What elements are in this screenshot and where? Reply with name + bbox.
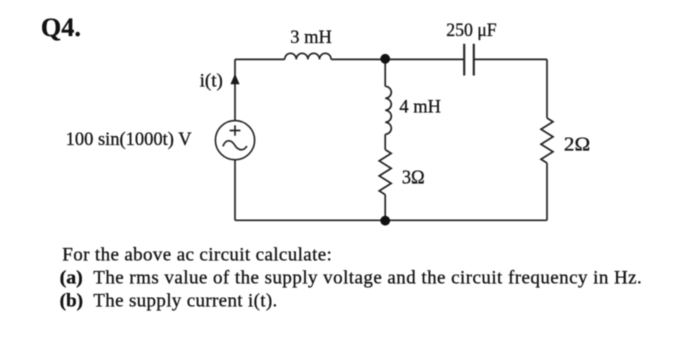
svg-text:i(t): i(t) bbox=[200, 70, 223, 91]
svg-text:3Ω: 3Ω bbox=[402, 167, 425, 188]
svg-text:4 mH: 4 mH bbox=[399, 97, 441, 118]
svg-text:The rms value of the supply vo: The rms value of the supply voltage and … bbox=[93, 268, 642, 289]
svg-text:(b): (b) bbox=[60, 290, 84, 311]
svg-text:250 μF: 250 μF bbox=[446, 20, 497, 41]
svg-text:100 sin(1000t) V: 100 sin(1000t) V bbox=[66, 129, 192, 150]
svg-text:For the above ac circuit calcu: For the above ac circuit calculate: bbox=[62, 245, 332, 266]
svg-text:2Ω: 2Ω bbox=[564, 135, 590, 156]
svg-text:3 mH: 3 mH bbox=[290, 27, 332, 48]
svg-text:Q4.: Q4. bbox=[41, 12, 81, 42]
svg-text:(a): (a) bbox=[60, 268, 83, 289]
svg-text:The supply current i(t).: The supply current i(t). bbox=[93, 290, 277, 311]
